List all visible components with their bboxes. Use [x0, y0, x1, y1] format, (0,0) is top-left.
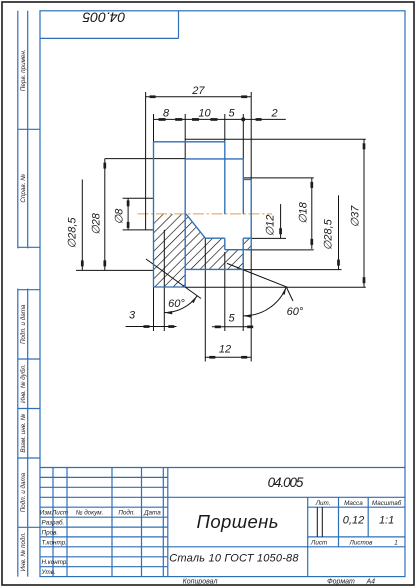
svg-text:10: 10 [198, 108, 211, 120]
svg-text:3: 3 [129, 310, 136, 322]
svg-text:04.005: 04.005 [268, 475, 304, 490]
svg-text:60°: 60° [287, 306, 304, 318]
svg-text:5: 5 [229, 108, 236, 120]
svg-text:Справ. №: Справ. № [20, 174, 27, 203]
svg-text:∅28: ∅28 [91, 212, 103, 235]
svg-text:∅18: ∅18 [298, 201, 310, 224]
svg-text:Подп.: Подп. [118, 509, 135, 517]
svg-text:2: 2 [270, 108, 277, 120]
svg-text:Инв. № дубл.: Инв. № дубл. [19, 364, 27, 403]
svg-text:Формат: Формат [327, 579, 355, 586]
svg-text:Лист: Лист [51, 510, 68, 517]
svg-text:∅28,5: ∅28,5 [67, 217, 79, 249]
svg-text:Поршень: Поршень [197, 511, 279, 532]
svg-text:Подп. и дата: Подп. и дата [19, 472, 27, 512]
svg-text:60°: 60° [168, 298, 185, 310]
svg-text:Инв. № подл.: Инв. № подл. [19, 532, 27, 571]
svg-text:Утв.: Утв. [41, 569, 56, 576]
svg-text:А4: А4 [366, 579, 376, 586]
svg-text:∅28,5: ∅28,5 [322, 218, 334, 250]
svg-text:Разраб.: Разраб. [42, 519, 65, 527]
svg-text:Подп. и дата: Подп. и дата [19, 304, 27, 344]
svg-text:∅37: ∅37 [350, 205, 362, 228]
svg-text:Масштаб: Масштаб [372, 499, 402, 507]
svg-text:27: 27 [191, 85, 205, 97]
svg-text:Лит.: Лит. [315, 500, 331, 507]
svg-text:1: 1 [394, 539, 398, 546]
svg-text:Сталь 10 ГОСТ 1050-88: Сталь 10 ГОСТ 1050-88 [169, 553, 299, 565]
svg-text:Дата: Дата [143, 510, 161, 517]
svg-text:Перв. примен.: Перв. примен. [20, 49, 27, 91]
svg-text:Н.контр.: Н.контр. [42, 559, 69, 566]
svg-text:Т.контр.: Т.контр. [42, 539, 67, 546]
svg-text:Взам. инв. №: Взам. инв. № [20, 414, 27, 453]
svg-text:8: 8 [163, 108, 170, 120]
svg-text:Копировал: Копировал [183, 579, 218, 586]
svg-text:12: 12 [219, 344, 231, 356]
svg-text:Листов: Листов [349, 539, 374, 546]
svg-text:№ докум.: № докум. [76, 509, 104, 517]
svg-text:1:1: 1:1 [379, 515, 394, 527]
svg-text:0,12: 0,12 [343, 515, 364, 527]
svg-text:Масса: Масса [344, 500, 363, 507]
svg-text:∅12: ∅12 [265, 215, 277, 237]
svg-text:04.005: 04.005 [82, 9, 125, 25]
svg-text:Лист: Лист [310, 539, 327, 546]
svg-text:∅8: ∅8 [114, 208, 126, 225]
svg-text:5: 5 [228, 313, 235, 325]
svg-text:Пров.: Пров. [42, 529, 59, 536]
